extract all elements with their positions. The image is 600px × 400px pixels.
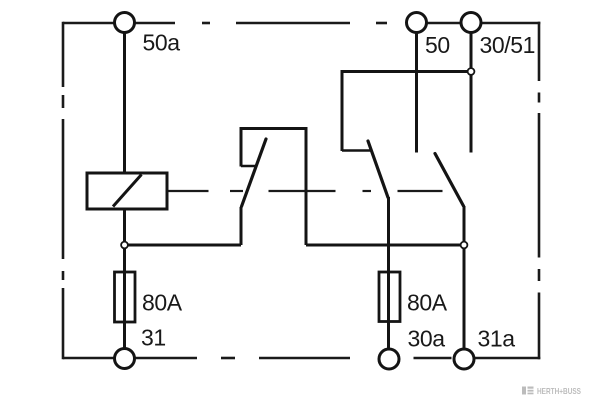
- svg-text:30/51: 30/51: [480, 32, 536, 58]
- svg-text:HERTH+BUSS: HERTH+BUSS: [537, 386, 581, 396]
- svg-text:50a: 50a: [143, 30, 181, 56]
- svg-text:80A: 80A: [142, 290, 183, 316]
- svg-text:31a: 31a: [478, 326, 516, 352]
- svg-text:80A: 80A: [407, 290, 448, 316]
- svg-text:50: 50: [425, 32, 450, 58]
- svg-text:30a: 30a: [408, 326, 446, 352]
- svg-text:31: 31: [141, 325, 166, 351]
